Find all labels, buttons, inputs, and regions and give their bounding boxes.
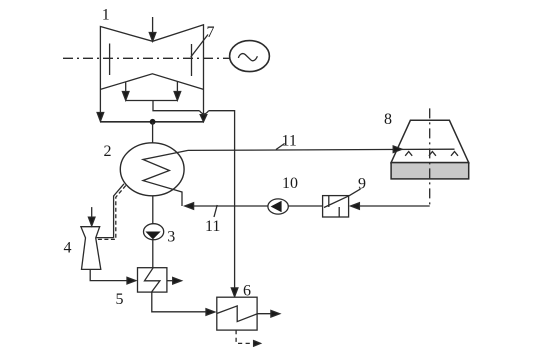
extraction drop wire bbox=[153, 101, 200, 111]
ejector suction line dashed bbox=[97, 186, 126, 240]
circulating water line 11 to tower bbox=[188, 149, 455, 150]
spray nozzle mark 3 bbox=[451, 152, 458, 156]
heater 5 bottom wire to heater 6 bbox=[152, 292, 212, 312]
turbine left stage tick bbox=[109, 44, 111, 76]
svg-text:2: 2 bbox=[104, 143, 112, 160]
svg-text:9: 9 bbox=[358, 176, 366, 193]
heater 5 outlet right arrow bbox=[167, 277, 182, 284]
wire condenser to pump 3 bbox=[152, 196, 154, 224]
filter 9 bottom tick bbox=[338, 207, 340, 217]
svg-text:1: 1 bbox=[102, 6, 110, 23]
svg-text:4: 4 bbox=[64, 240, 72, 257]
arrow into heater 6 top bbox=[231, 288, 238, 297]
arrow into tower bbox=[393, 146, 402, 153]
label 11 upper leader bbox=[276, 144, 285, 150]
wire hop over turbine exhaust bbox=[200, 111, 209, 114]
svg-text:8: 8 bbox=[384, 111, 392, 128]
svg-text:5: 5 bbox=[116, 291, 124, 308]
condenser 2 bbox=[120, 143, 184, 196]
filter 9 box bbox=[323, 196, 349, 217]
turbine 1 casing bbox=[100, 25, 203, 122]
turbine right stage tick bbox=[191, 44, 193, 76]
condenser header wire bbox=[100, 121, 203, 123]
drain arrow bbox=[254, 341, 261, 347]
cooling tower 8 axis bbox=[429, 108, 431, 205]
heater 6 zigzag bbox=[217, 306, 257, 322]
label 7 leader bbox=[191, 35, 208, 58]
svg-text:11: 11 bbox=[205, 218, 220, 235]
ejector inlet arrow bbox=[88, 207, 95, 226]
extraction arrow right bbox=[174, 82, 181, 101]
svg-text:6: 6 bbox=[243, 283, 251, 300]
junction dot bbox=[150, 119, 156, 125]
ejector suction line solid bbox=[97, 184, 125, 238]
turbine right exhaust arrow bbox=[200, 115, 207, 122]
arrow into condenser loop bbox=[185, 203, 194, 210]
svg-text:3: 3 bbox=[167, 229, 175, 246]
wire filter to pump 10 bbox=[288, 205, 322, 207]
heater 6 drain dashed wire bbox=[236, 330, 253, 343]
ejector outlet wire bbox=[90, 269, 132, 280]
extraction connector wire bbox=[126, 100, 178, 102]
condenser cooling zigzag bbox=[143, 150, 188, 206]
svg-text:7: 7 bbox=[207, 24, 215, 41]
cooling tower basin bbox=[391, 163, 469, 179]
extraction arrow left bbox=[122, 82, 129, 100]
filter 9 top tick bbox=[328, 196, 330, 207]
steam inlet arrow bbox=[149, 17, 156, 41]
turbine left exhaust arrow bbox=[97, 113, 104, 122]
return water line bbox=[353, 205, 430, 207]
ejector 4 body bbox=[81, 227, 101, 270]
wire pump 3 to heater 5 bbox=[152, 240, 154, 268]
svg-text:10: 10 bbox=[282, 175, 298, 192]
wire pump 10 to condenser bbox=[188, 205, 268, 207]
pump 3 bbox=[144, 224, 164, 240]
heater 5 zigzag bbox=[145, 268, 160, 292]
pump 10 bbox=[268, 199, 288, 214]
spray nozzle mark 1 bbox=[405, 152, 412, 156]
generator bbox=[230, 41, 270, 72]
shaft centerline bbox=[63, 57, 230, 59]
arrow into heater 6 left bbox=[206, 309, 215, 316]
label 11 lower leader bbox=[214, 205, 217, 217]
spray nozzle mark 2 bbox=[429, 152, 436, 156]
arrow into heater 5 bbox=[127, 277, 136, 284]
heater 5 box bbox=[138, 268, 167, 292]
label 9 leader bbox=[349, 189, 361, 196]
heater 6 outlet right arrow bbox=[257, 310, 280, 317]
cooling tower 8 shell bbox=[391, 120, 469, 162]
heater 6 box bbox=[217, 297, 257, 330]
filter 9 diagonal bbox=[324, 196, 349, 208]
arrow into filter 9 bbox=[351, 203, 360, 210]
extraction header wire to right main bbox=[209, 111, 235, 292]
wire header to condenser bbox=[152, 122, 154, 143]
svg-text:11: 11 bbox=[282, 133, 297, 150]
